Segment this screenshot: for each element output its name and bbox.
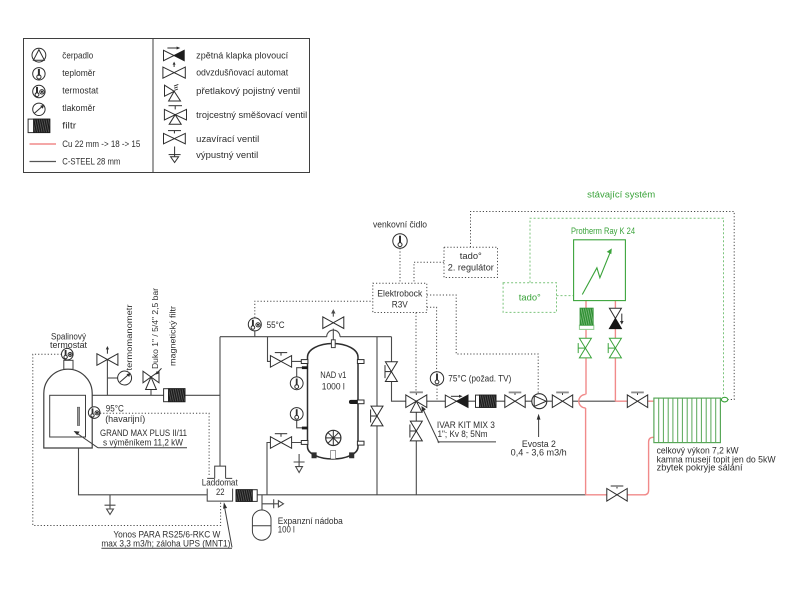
svg-text:termostat: termostat (62, 86, 98, 96)
svg-text:filtr: filtr (62, 121, 76, 131)
wire riser tank right to bottom line (376, 337, 378, 495)
wire tado 2.regulator to Elektrobock (414, 262, 444, 283)
air vent head on radiator (721, 397, 727, 402)
shut-off valve before pump (505, 392, 525, 407)
shut-off valve after pump (552, 392, 572, 407)
underline IVAR label (438, 441, 497, 443)
svg-text:1"; Kv 8; 5Nm: 1"; Kv 8; 5Nm (438, 429, 488, 439)
legend shut-off valve symbol (164, 131, 186, 144)
svg-text:uzavírací ventil: uzavírací ventil (196, 134, 259, 144)
wire outdoor sensor to Elektrobock (399, 248, 401, 283)
svg-text:Elektrobock: Elektrobock (377, 289, 422, 299)
svg-text:s výměníkem 11,2 kW: s výměníkem 11,2 kW (103, 437, 183, 447)
wire tank bottom-left valve to bottom line (267, 443, 302, 495)
Laddomat 22 unit (207, 466, 232, 501)
svg-text:tado°: tado° (519, 292, 541, 302)
legend C-STEEL pipe sample (30, 161, 57, 163)
leader IVAR label (424, 411, 439, 444)
svg-text:55°C: 55°C (267, 320, 285, 330)
tank right sensor plug (349, 400, 357, 404)
wire radiator supply (616, 400, 654, 402)
wire fill/drain arrowhead (278, 501, 283, 507)
tank left sensor pocket bottom (302, 427, 308, 430)
underline GRAND MAX label (98, 447, 187, 449)
wire mixed supply line (427, 400, 616, 402)
svg-text:C-STEEL 28 mm: C-STEEL 28 mm (62, 157, 120, 167)
svg-text:0,4 - 3,6 m3/h: 0,4 - 3,6 m3/h (511, 448, 567, 458)
legend safety valve symbol (165, 84, 181, 101)
thermometer tank lower (290, 408, 303, 421)
controller Elektrobock R3V box (373, 283, 427, 312)
shut-off valve green right (608, 338, 621, 358)
dashed boundary stavajici system (530, 218, 724, 396)
svg-text:Cu 22 mm -> 18 -> 15: Cu 22 mm -> 18 -> 15 (62, 139, 140, 149)
wire tank drain stem (294, 454, 305, 466)
svg-text:tado°: tado° (460, 251, 482, 261)
wire Protherm left pipe down (585, 301, 587, 395)
three-way valve Duko (143, 368, 162, 389)
svg-text:95°C: 95°C (106, 404, 124, 414)
legend thermostat icon (33, 85, 45, 97)
wire riser top line down at x391 to mixing valve (392, 337, 407, 402)
svg-text:zpětná klapka plovoucí: zpětná klapka plovoucí (196, 51, 288, 61)
svg-text:tlakoměr: tlakoměr (62, 103, 95, 113)
wire boiler return to Laddomat (79, 448, 207, 495)
tank right nozzle bottom (357, 441, 364, 445)
thermostat flue (Spalinovy termostat) (62, 348, 74, 360)
wire fill/drain to right (262, 499, 279, 508)
tank pump circle (326, 430, 341, 445)
leader Yonos label to Laddomat (225, 509, 232, 548)
wire air vent pin (332, 310, 335, 316)
radiator (654, 398, 721, 443)
wire riser boiler/tank/Laddomat (219, 337, 221, 467)
gauge link pipe (107, 377, 117, 379)
svg-text:1000 l: 1000 l (322, 381, 345, 391)
thermostat 95C havarijni (88, 407, 100, 419)
svg-text:termostat: termostat (50, 340, 87, 350)
safety vent valve above boiler stem (106, 360, 108, 396)
wire red crossing arc (579, 394, 586, 408)
air-vent automat above tank (323, 317, 344, 329)
svg-text:100 l: 100 l (278, 525, 295, 535)
svg-text:NAD v1: NAD v1 (320, 370, 346, 380)
tank legs (312, 451, 354, 460)
shut-off valve below mixing valve (vertical) (410, 421, 422, 441)
wire tado 2.regulator to radiator vent head (471, 212, 735, 400)
check valve on mixed line (445, 395, 468, 408)
pressure gauge termomanometr (118, 371, 132, 385)
filter after Laddomat (236, 490, 257, 502)
shut-off valve riser x391 (vertical) (385, 362, 397, 382)
wire flue-thermostat to Laddomat loop (33, 354, 221, 525)
mixing valve IVAR KIT MIX 3 (406, 392, 427, 412)
svg-text:čerpadlo: čerpadlo (62, 51, 93, 61)
legend three-way mixing valve symbol (164, 106, 186, 125)
legend box right frame (153, 39, 310, 173)
svg-text:stávající systém: stávající systém (587, 189, 655, 199)
svg-text:22: 22 (216, 487, 225, 497)
zigzag power symbol (582, 248, 612, 294)
shut-off valve on radiator return (607, 486, 627, 501)
wire Protherm right pipe down (614, 301, 616, 402)
controller tado green box (503, 283, 556, 313)
boiler GRAND MAX body (44, 369, 92, 448)
wire tado to Protherm (557, 295, 574, 297)
wire boiler hot outlet to riser (92, 394, 220, 396)
boiler chimney neck (64, 360, 73, 369)
safety vent valve above boiler (97, 346, 118, 365)
svg-text:trojcestný směšovací ventil: trojcestný směšovací ventil (196, 110, 307, 120)
wire drain arrowhead (107, 509, 114, 515)
legend right texts (196, 51, 307, 161)
legend pressure-gauge icon (33, 103, 45, 115)
wire drain under boiler return (105, 495, 116, 509)
legend filter icon (28, 119, 50, 133)
legend check valve symbol (164, 47, 185, 61)
svg-text:2. regulátor: 2. regulátor (448, 262, 494, 272)
thermostat 55C (248, 318, 261, 331)
svg-text:Protherm Ray K 24: Protherm Ray K 24 (571, 226, 635, 236)
wire tank drain arrowhead (296, 467, 303, 473)
filter magneticky (boiler line) (164, 389, 185, 402)
wire 75C sensor to pipe (436, 385, 438, 400)
tank right sensor nozzle middle (357, 400, 364, 404)
tank right nozzle top (357, 360, 364, 364)
wire Elektrobock to 75C sensor (427, 307, 437, 371)
svg-text:odvzdušňovací automat: odvzdušňovací automat (196, 68, 288, 78)
wire mixing valve bottom branch (415, 412, 417, 495)
thermometer 75C (430, 372, 443, 385)
expansion vessel (252, 510, 271, 540)
shut-off valve green left (578, 338, 591, 358)
svg-text:výpustný ventil: výpustný ventil (196, 150, 258, 160)
wire 95C safety stat to Laddomat (100, 413, 209, 477)
svg-text:Laddomat: Laddomat (202, 478, 238, 488)
legend box left frame (24, 39, 154, 173)
legend air-vent symbol (163, 62, 185, 79)
tank NAD v1 body (308, 344, 359, 460)
controller tado 2.regulator box (444, 247, 498, 277)
legend Cu pipe sample (30, 143, 57, 145)
three-way valve Duko stem (150, 383, 152, 395)
tank top nipple (331, 340, 335, 348)
pump Evosta 2 (532, 394, 547, 409)
wire 55C stem (254, 331, 256, 337)
thermometer tank upper (290, 377, 303, 390)
tank left sensor pocket top (302, 366, 308, 369)
wire Elektrobock to mixing valve actuator (415, 313, 417, 392)
wire thermometer T2 link (297, 420, 303, 427)
legend drain valve symbol (169, 147, 181, 163)
wire top supply line to tank area (220, 336, 392, 338)
wire bottom distribution line (257, 494, 585, 496)
wire expansion vessel stub (261, 495, 263, 510)
svg-text:zbytek pokryje sálání: zbytek pokryje sálání (657, 463, 744, 473)
svg-text:teploměr: teploměr (62, 68, 95, 78)
shut-off valve before radiator (627, 392, 647, 407)
shut-off valve tank top-left (270, 353, 291, 368)
wire red down to bottom line (585, 408, 587, 495)
legend pump icon (32, 48, 46, 62)
legend thermometer icon (33, 68, 45, 80)
shut-off valve riser x377 (vertical) (371, 406, 383, 426)
svg-text:přetlakový pojistný ventil: přetlakový pojistný ventil (196, 86, 300, 96)
check valve vertical on Protherm right pipe (609, 308, 623, 328)
leader to GRAND MAX label (76, 433, 98, 448)
svg-text:termomanometr: termomanometr (124, 304, 134, 370)
thermometer outdoor sensor (venkovni cidlo) (393, 234, 407, 248)
svg-text:R3V: R3V (392, 300, 408, 310)
svg-text:(havarijní): (havarijní) (105, 414, 145, 424)
boiler door slot (77, 407, 79, 425)
shut-off valve tank bottom-left (270, 434, 291, 449)
svg-text:magnetický filtr: magnetický filtr (167, 306, 177, 366)
wire 55C stat to Elektrobock (255, 301, 373, 318)
svg-text:Duko 1" / 5/4" 2,5 bar: Duko 1" / 5/4" 2,5 bar (150, 288, 160, 369)
boiler Protherm Ray K 24 (574, 240, 626, 301)
filter on mixed line (476, 395, 497, 407)
tank left nozzle bottom (301, 441, 308, 445)
legend left texts (62, 51, 140, 167)
wire Elektrobock to Evosta pump (427, 295, 538, 394)
wire crossing arc over tank pipe (327, 330, 340, 337)
underline Yonos label (101, 547, 232, 549)
wire tank top pipe to air vent (332, 329, 334, 340)
arrow Evosta label to pump (538, 419, 540, 437)
filter green on Protherm left pipe (579, 308, 593, 329)
boiler door (50, 395, 86, 437)
wire branch to tank top-left valve (268, 337, 302, 362)
svg-text:max 3,3 m3/h; záloha UPS (MNT1: max 3,3 m3/h; záloha UPS (MNT1) (101, 539, 230, 549)
svg-text:venkovní čidlo: venkovní čidlo (373, 220, 427, 230)
tank left nozzle top (301, 360, 308, 364)
svg-text:75°C (požad. TV): 75°C (požad. TV) (448, 374, 511, 384)
wire thermometer T1 link (297, 368, 303, 377)
wire radiator return bottom (586, 437, 654, 495)
